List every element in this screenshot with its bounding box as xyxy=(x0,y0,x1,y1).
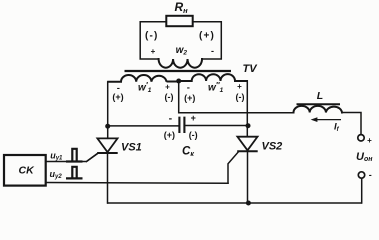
svg-text:+: + xyxy=(165,82,170,91)
wire inductor to + terminal xyxy=(342,113,361,136)
terminal + xyxy=(358,135,364,141)
svg-text:(-): (-) xyxy=(145,30,159,41)
resistor Rн xyxy=(166,16,192,26)
junction center tap xyxy=(176,79,181,84)
svg-text:Rн: Rн xyxy=(175,0,189,15)
svg-text:-: - xyxy=(187,82,190,93)
wire uy2 xyxy=(46,182,228,185)
wire VS1 anode xyxy=(107,126,109,138)
svg-text:Cк: Cк xyxy=(182,146,194,158)
svg-text:w′1: w′1 xyxy=(138,81,152,94)
svg-text:(-): (-) xyxy=(189,130,198,140)
winding w1'' xyxy=(179,74,247,81)
svg-text:(+): (+) xyxy=(199,30,215,41)
block CK xyxy=(4,155,46,186)
svg-text:If: If xyxy=(334,121,340,133)
wire VS2 cathode down xyxy=(247,151,249,203)
thyristor VS1 xyxy=(97,138,117,152)
svg-text:uу1: uу1 xyxy=(50,151,63,162)
capacitor Cк left wire xyxy=(108,125,180,127)
svg-text:+: + xyxy=(237,82,242,91)
svg-text:-: - xyxy=(369,170,372,180)
arrow If xyxy=(315,119,342,121)
svg-text:+: + xyxy=(151,47,156,56)
svg-text:+: + xyxy=(367,136,372,145)
svg-text:TV: TV xyxy=(243,63,259,75)
junction VS1 anode xyxy=(105,124,110,129)
svg-text:w2: w2 xyxy=(176,45,188,56)
winding w2 xyxy=(159,59,202,68)
pulse uy2 xyxy=(66,167,83,179)
svg-text:w″1: w″1 xyxy=(208,81,224,94)
inductor L core bar xyxy=(297,103,341,105)
wire center tap to inductor xyxy=(179,81,294,113)
svg-text:-: - xyxy=(169,113,173,125)
wire primary right end to VS2 anode xyxy=(246,81,248,137)
svg-text:VS2: VS2 xyxy=(262,141,283,153)
wire - terminal down xyxy=(361,178,363,203)
thyristor VS2 xyxy=(237,137,257,151)
svg-text:-: - xyxy=(211,46,214,56)
svg-text:VS1: VS1 xyxy=(121,141,142,153)
svg-text:(-): (-) xyxy=(236,92,245,102)
capacitor Cк right wire xyxy=(184,125,248,127)
svg-text:CK: CK xyxy=(19,165,36,177)
svg-text:uу2: uу2 xyxy=(50,169,63,180)
svg-text:(+): (+) xyxy=(184,93,195,103)
winding w1' xyxy=(108,75,179,82)
inductor L xyxy=(294,106,343,113)
wire primary left end xyxy=(107,82,109,126)
svg-text:(-): (-) xyxy=(165,92,174,102)
wire uy1 xyxy=(46,154,98,162)
svg-text:Uон: Uон xyxy=(356,151,373,163)
svg-text:(+): (+) xyxy=(112,92,123,102)
wire VS1 gate xyxy=(87,154,98,162)
wire bottom rail xyxy=(108,202,361,204)
svg-text:(+): (+) xyxy=(164,130,175,140)
wire VS2 gate xyxy=(228,152,238,183)
svg-text:+: + xyxy=(191,113,196,123)
capacitor Cк plates xyxy=(179,117,184,133)
terminal - xyxy=(358,172,364,178)
wire VS1 cathode down xyxy=(107,153,109,203)
pulse uy1 xyxy=(66,149,83,162)
transformer TV core xyxy=(125,70,232,72)
svg-text:L: L xyxy=(317,90,323,102)
junction VS2 anode xyxy=(246,123,251,128)
junction VS2 cathode rail xyxy=(246,201,251,206)
wire secondary loop xyxy=(140,22,221,59)
